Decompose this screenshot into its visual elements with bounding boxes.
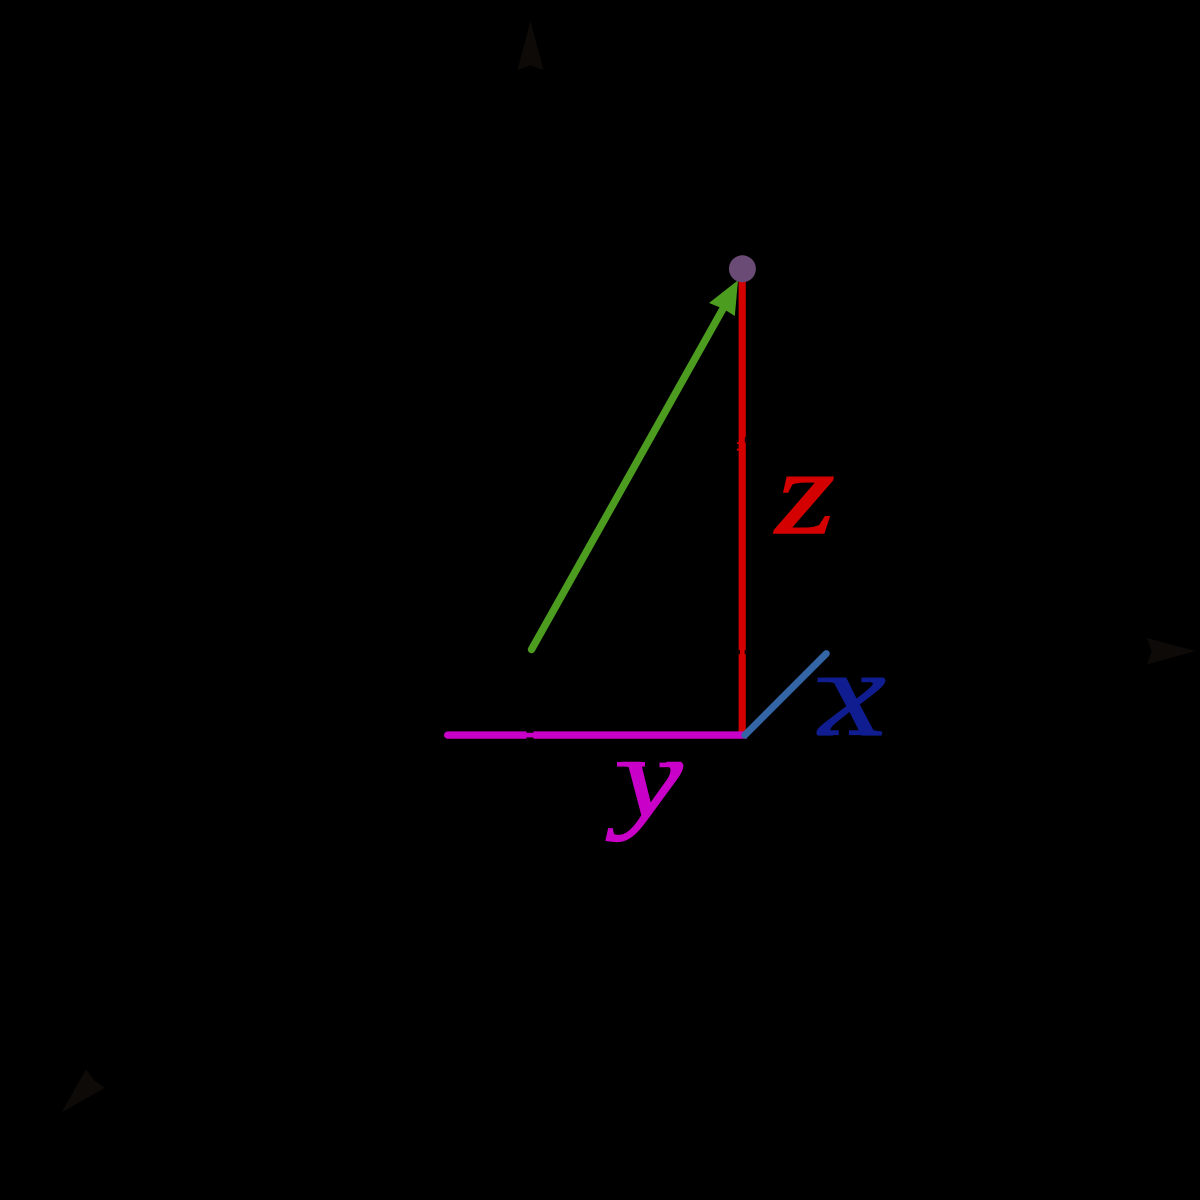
svg-text:x: x xyxy=(817,625,886,762)
svg-text:z: z xyxy=(773,425,835,560)
svg-text:y: y xyxy=(606,713,683,842)
